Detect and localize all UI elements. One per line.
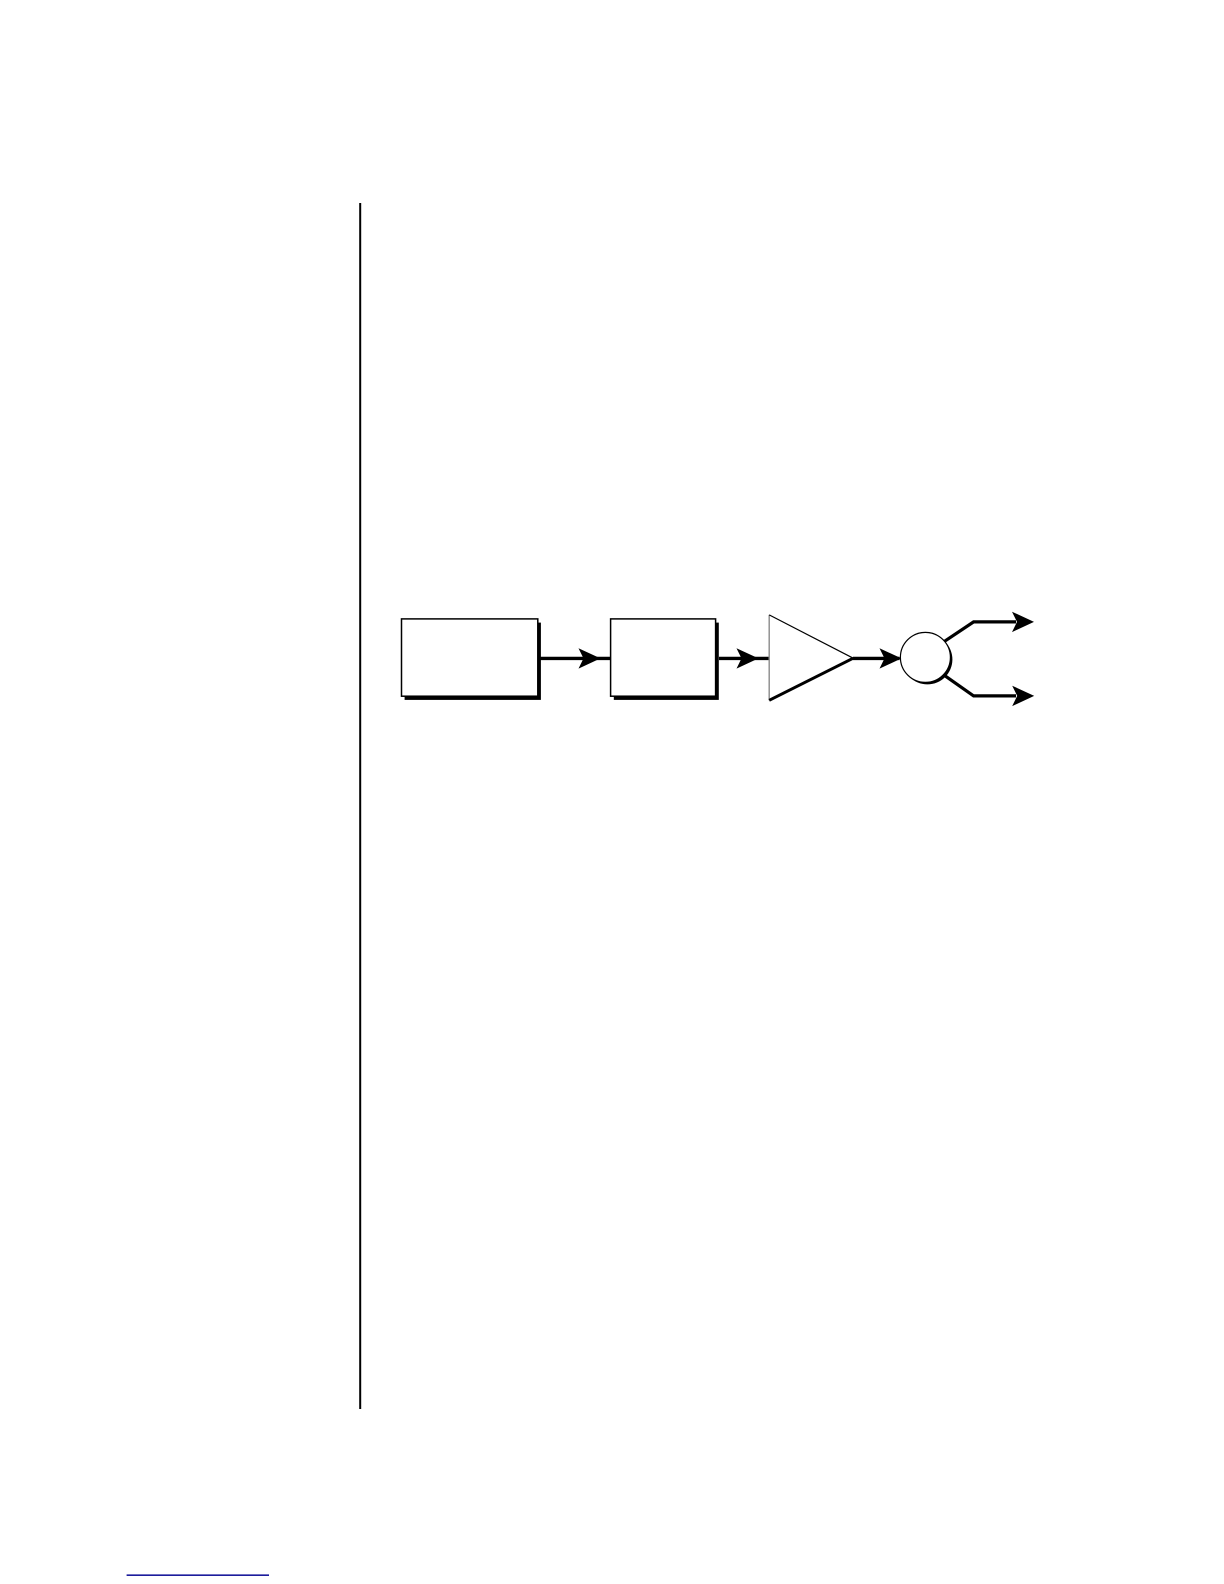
box B2	[611, 619, 716, 696]
box B1	[402, 619, 538, 696]
arrowhead A5	[1012, 686, 1034, 706]
sidebar rule	[359, 203, 361, 1409]
wire W3 (amplifier to splitter)	[853, 657, 900, 660]
splitter node	[900, 632, 950, 682]
amplifier triangle bottom edge	[769, 658, 853, 700]
arrowhead A1	[579, 648, 601, 668]
wire W5 lower branch	[945, 676, 1016, 696]
arrowhead A2	[737, 648, 759, 668]
amplifier triangle left edge	[768, 615, 770, 700]
box B2 shadow	[614, 623, 719, 700]
wire W1 (B1 to B2)	[538, 657, 611, 660]
box B1 shadow	[405, 623, 541, 700]
arrowhead A3	[880, 648, 902, 668]
wire W2 (B2 to amplifier)	[719, 657, 769, 660]
arrowhead A4	[1012, 612, 1034, 632]
footer link underline	[127, 1574, 269, 1576]
amplifier triangle top edge	[769, 615, 853, 658]
splitter node shadow	[902, 634, 952, 684]
wire W4 upper branch	[945, 622, 1016, 641]
